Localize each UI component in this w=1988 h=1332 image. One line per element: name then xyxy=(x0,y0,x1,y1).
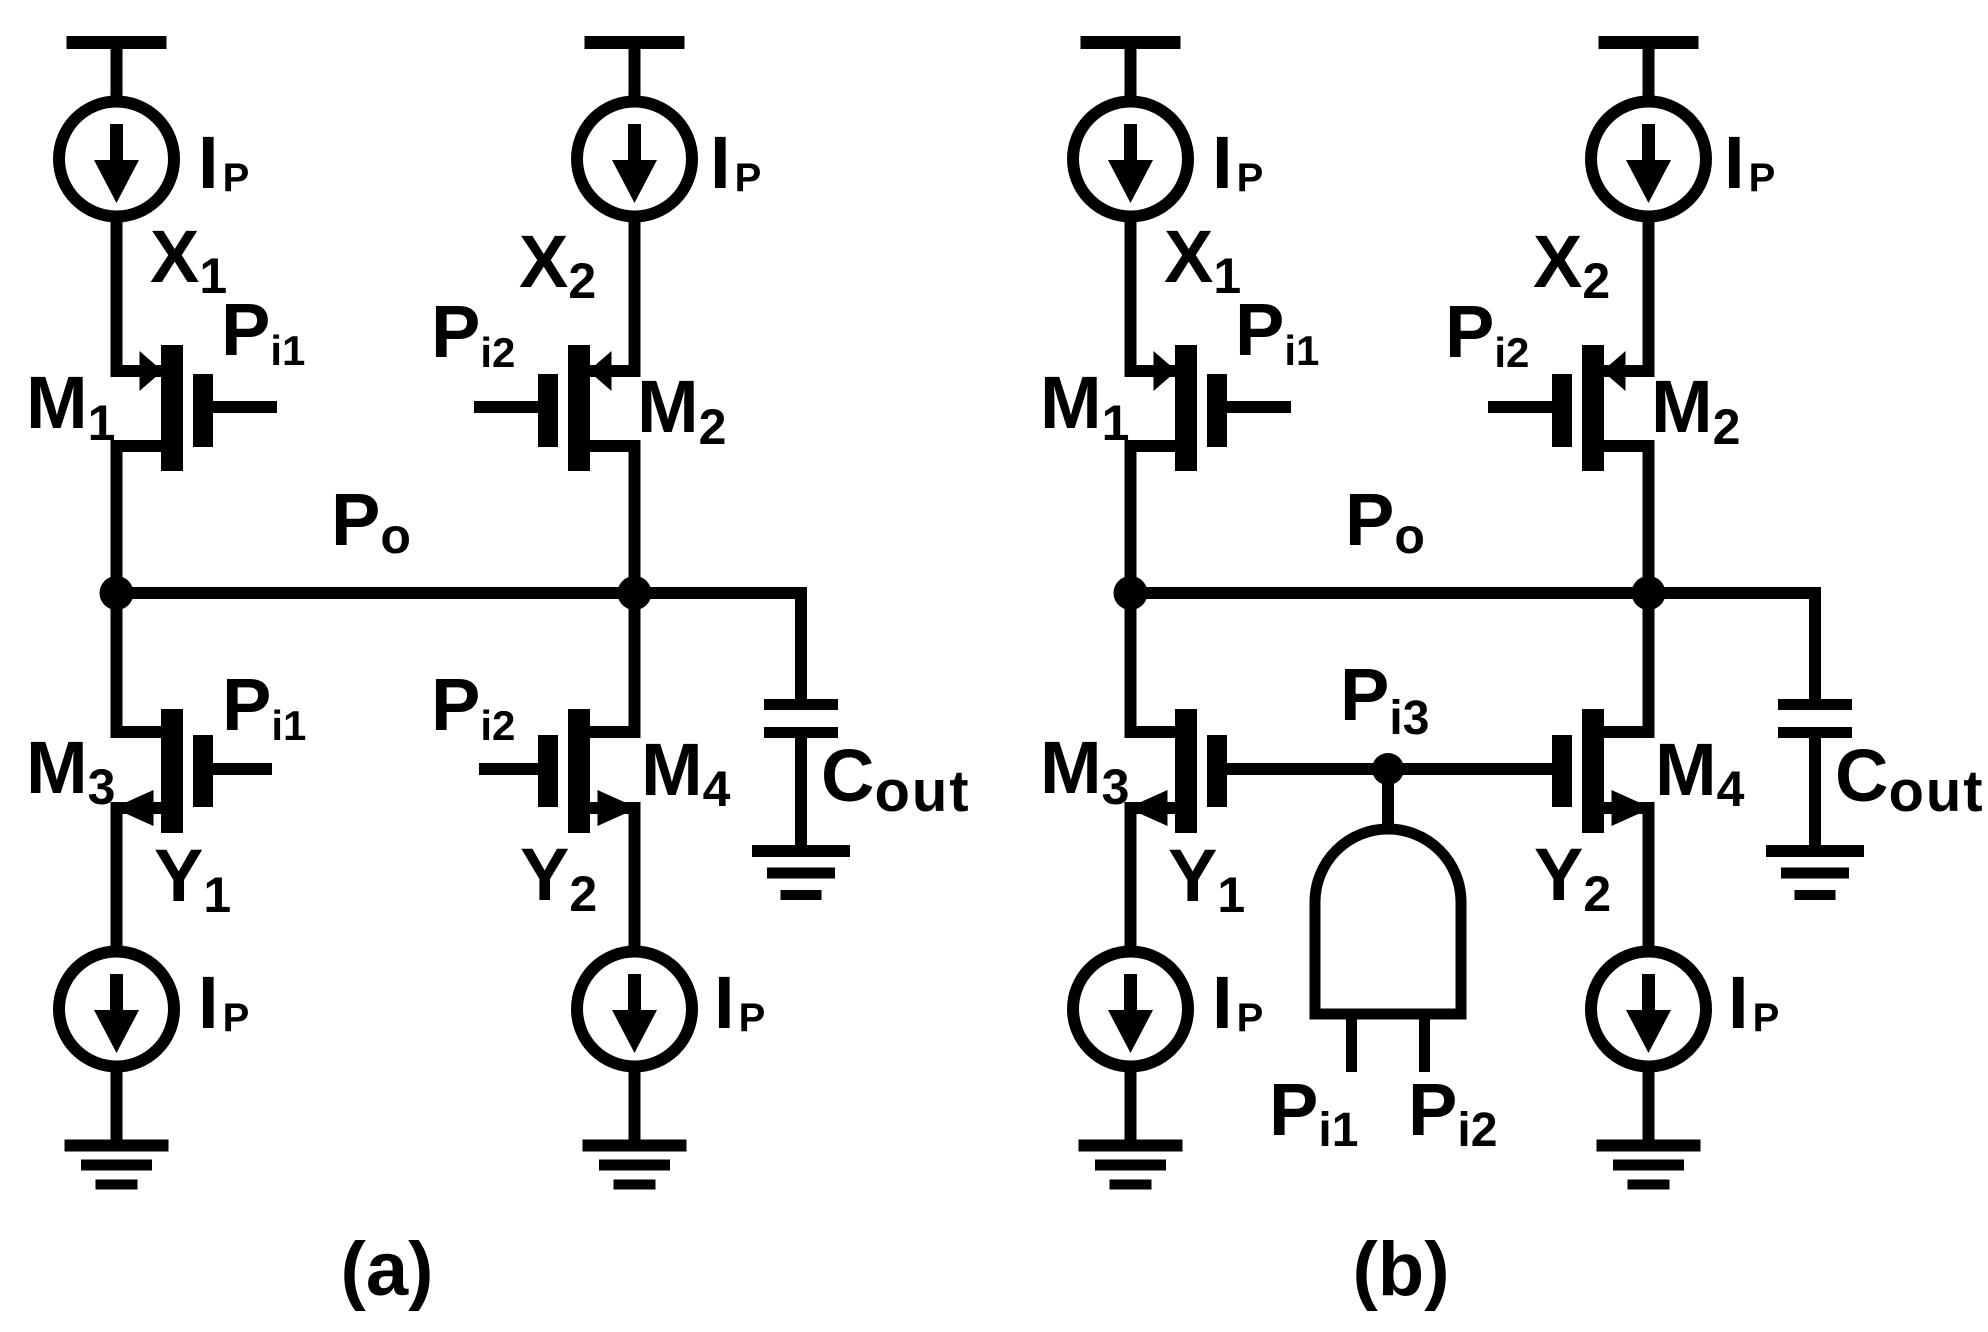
wire Pi3 node to AND gate output xyxy=(1382,771,1394,830)
wire M3 source to IP (b) xyxy=(1125,802,1137,953)
transistor M3 (a) xyxy=(114,709,273,833)
wire M4 source to IP (a) xyxy=(629,802,641,953)
wire M2 drain to node Po (a) xyxy=(629,440,641,599)
current source IP top-left (a) xyxy=(59,102,174,217)
wire to ground left (a) xyxy=(111,1066,123,1140)
wire to ground right (b) xyxy=(1643,1066,1655,1140)
current source IP top-right (a) xyxy=(577,102,692,217)
wire capacitor to ground (a) xyxy=(795,738,807,845)
svg-text:(a): (a) xyxy=(341,1227,434,1312)
transistor M1 (b) xyxy=(1131,345,1292,471)
transistor M3 (b) xyxy=(1128,709,1389,833)
wire X1: source to M1 (a) xyxy=(111,216,123,377)
svg-text:(b): (b) xyxy=(1352,1227,1449,1312)
current source IP bottom-right (a) xyxy=(577,952,692,1067)
wire M3 source to IP (a) xyxy=(111,802,123,953)
VDD rail bar (a right) xyxy=(585,36,685,49)
wire VDD stub (b left) xyxy=(1125,49,1137,103)
wire AND input Pi1 xyxy=(1346,1013,1357,1072)
wire node to M3 drain (a) xyxy=(111,587,123,738)
wire node to M3 drain (b) xyxy=(1125,587,1137,738)
current source IP top-left (b) xyxy=(1073,102,1188,217)
node dot Po right (a) xyxy=(618,576,652,610)
current source IP bottom-left (a) xyxy=(59,952,174,1067)
wire X2: source to M2 (a) xyxy=(629,216,641,377)
capacitor Cout (b) xyxy=(1778,699,1852,738)
transistor M2 (b) xyxy=(1488,345,1649,471)
wire capacitor to ground (b) xyxy=(1809,738,1821,845)
transistor M1 (a) xyxy=(117,345,278,471)
wire to ground left (b) xyxy=(1125,1066,1137,1140)
current source IP bottom-left (b) xyxy=(1073,952,1188,1067)
wire X2: source to M2 (b) xyxy=(1643,216,1655,377)
wire VDD stub (b right) xyxy=(1643,49,1655,103)
wire Po to capacitor (a) xyxy=(795,587,807,699)
capacitor Cout (a) xyxy=(764,699,838,738)
transistor M4 (a) xyxy=(479,709,638,833)
node dot Po left (a) xyxy=(100,576,134,610)
ground capacitor (a) xyxy=(752,845,850,900)
ground capacitor (b) xyxy=(1766,845,1864,900)
ground left branch (b) xyxy=(1079,1140,1183,1190)
wire M1 drain to node Po (b) xyxy=(1125,440,1137,599)
wire X1: source to M1 (b) xyxy=(1125,216,1137,377)
VDD rail bar (b right) xyxy=(1599,36,1699,49)
ground right branch (a) xyxy=(583,1140,687,1190)
wire to ground right (a) xyxy=(629,1066,641,1140)
transistor M4 (b) xyxy=(1388,709,1652,833)
node dot Po left (b) xyxy=(1114,576,1148,610)
wire node to M4 drain (b) xyxy=(1643,587,1655,738)
ground left branch (a) xyxy=(65,1140,169,1190)
wire net Po (b) xyxy=(1125,587,1822,599)
wire VDD stub (a left) xyxy=(111,49,123,103)
ground right branch (b) xyxy=(1597,1140,1701,1190)
wire net Po (a) xyxy=(111,587,808,599)
wire M4 source to IP (b) xyxy=(1643,802,1655,953)
current source IP bottom-right (b) xyxy=(1591,952,1706,1067)
wire M1 drain to node Po (a) xyxy=(111,440,123,599)
AND gate U1 xyxy=(1315,829,1461,1014)
wire AND input Pi2 xyxy=(1419,1013,1430,1072)
current source IP top-right (b) xyxy=(1591,102,1706,217)
node dot Po right (b) xyxy=(1632,576,1666,610)
transistor M2 (a) xyxy=(474,345,635,471)
VDD rail bar (b left) xyxy=(1081,36,1181,49)
VDD rail bar (a left) xyxy=(67,36,167,49)
wire node to M4 drain (a) xyxy=(629,587,641,738)
wire M2 drain to node Po (b) xyxy=(1643,440,1655,599)
node dot Pi3 xyxy=(1372,753,1404,785)
wire VDD stub (a right) xyxy=(629,49,641,103)
wire Po to capacitor (b) xyxy=(1809,587,1821,699)
